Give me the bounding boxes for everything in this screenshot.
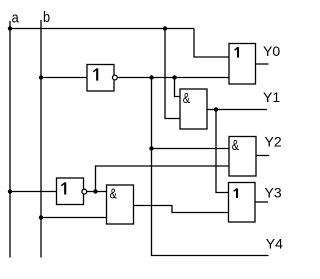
wire U5 output Y3 [255, 201, 268, 203]
svg-text:&: & [232, 136, 239, 153]
svg-text:b: b [43, 8, 50, 25]
wire b to U1 input [41, 77, 87, 79]
wire b to U7 pin [41, 217, 107, 219]
gate U2 Y0 [229, 44, 256, 85]
junction not-a branch [93, 189, 97, 193]
wire U3 output branch to U5 pin [216, 110, 229, 193]
junction not-b at U4 pin [149, 146, 153, 150]
svg-text:&: & [110, 185, 117, 202]
junction Y1 branch [214, 107, 218, 111]
net b rail [40, 20, 42, 258]
svg-text:Y4: Y4 [266, 236, 283, 252]
wire a top [10, 28, 194, 30]
junction a branch [163, 26, 167, 30]
wire a branch to U3 pin [165, 29, 180, 119]
wire U1 output not-b [117, 77, 229, 79]
svg-text:Y2: Y2 [265, 133, 282, 149]
wire U2 output Y0 [256, 63, 269, 65]
wire a to U2 pin [194, 29, 229, 58]
junction not-b down [149, 75, 153, 79]
junction not-b to U3 [172, 75, 176, 79]
wire U7 output to U5 pin [134, 206, 229, 213]
junction b at U1 input [39, 75, 43, 79]
wire U4 output Y2 [256, 155, 269, 157]
wire U6 output branch to U4 pin [96, 166, 230, 192]
wire U3 output Y1 [207, 109, 267, 111]
wire not-b branch down [152, 78, 269, 256]
inverter U6 [57, 178, 87, 205]
and-gate U3 Y1 [180, 89, 207, 129]
junction a at U6 input [8, 189, 12, 193]
wire not-a from a rail to U6 input [10, 191, 57, 193]
svg-text:&: & [183, 89, 190, 106]
junction b at U7 pin [39, 215, 43, 219]
inverter U1 [87, 65, 117, 92]
svg-text:Y0: Y0 [263, 43, 280, 59]
gate U5 Y3 [229, 183, 256, 223]
and-gate U7 [107, 185, 134, 224]
label input b [43, 8, 50, 25]
svg-text:Y3: Y3 [265, 184, 282, 200]
svg-text:a: a [12, 8, 19, 25]
wire not-b to U3 pin [175, 78, 181, 97]
wire U6 output to U7 pin [87, 191, 107, 193]
junction a top [8, 26, 12, 30]
wire not-b to U4 pin [152, 148, 230, 150]
label input a [12, 8, 19, 25]
and-gate U4 Y2 [229, 136, 256, 176]
net a rail [9, 21, 11, 258]
svg-text:Y1: Y1 [263, 89, 280, 105]
